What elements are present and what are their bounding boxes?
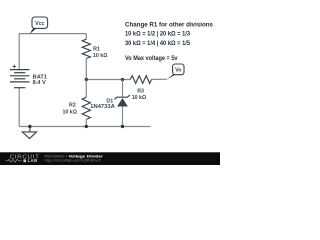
svg-text:10 kΩ: 10 kΩ [132,95,147,101]
wire: bottom ground rail [19,126,150,128]
logo CircuitLab [6,154,40,163]
wire: battery positive up and top rail to R1 [19,34,86,70]
svg-text:10 kΩ = 1/2 | 20 kΩ = 1/3: 10 kΩ = 1/2 | 20 kΩ = 1/3 [125,30,190,37]
svg-text:1N4733A: 1N4733A [90,104,115,110]
resistor R1 [82,34,90,80]
svg-text:Vo: Vo [175,67,182,73]
svg-text:10 kΩ: 10 kΩ [93,53,108,59]
svg-text:10 kΩ: 10 kΩ [62,109,77,115]
wire: battery negative to bottom rail [18,88,20,127]
junction dot ground [28,125,31,128]
flag Vo [167,64,184,79]
svg-text:R1: R1 [93,46,100,52]
svg-text:30 kΩ = 1/4 | 40 kΩ = 1/5: 30 kΩ = 1/4 | 40 kΩ = 1/5 [125,40,190,47]
wire: node A to D1 and R3 [86,79,130,81]
junction dot D1 bottom [121,125,124,128]
annotation: change R1 note [125,21,213,47]
svg-text:htpp://circuitlab.com/c9tb6hv2: htpp://circuitlab.com/c9tb6hv2/ [45,159,102,163]
flag Vcc [29,17,47,34]
node A junction dot [85,78,88,81]
resistor R2 [82,80,90,127]
svg-text:Change R1 for other divisions: Change R1 for other divisions [125,21,213,28]
battery BAT1 [10,65,30,88]
junction dot R2 bottom [85,125,88,128]
svg-text:LAB: LAB [28,158,38,163]
svg-text:RichMMJ / Voltage Divider: RichMMJ / Voltage Divider [45,153,104,158]
junction dot D1 top [121,78,124,81]
svg-text:Vo Max voltage = 5v: Vo Max voltage = 5v [125,55,178,62]
svg-text:8.4 V: 8.4 V [33,80,47,86]
wire: R3 right lead to Vo flag [151,78,167,80]
resistor R3 [130,76,151,84]
ground [22,127,36,139]
footer bar [0,152,220,165]
zener diode D1 [114,80,129,127]
svg-text:Vcc: Vcc [35,21,44,27]
svg-text:R3: R3 [137,89,144,95]
svg-text:R2: R2 [69,103,76,109]
